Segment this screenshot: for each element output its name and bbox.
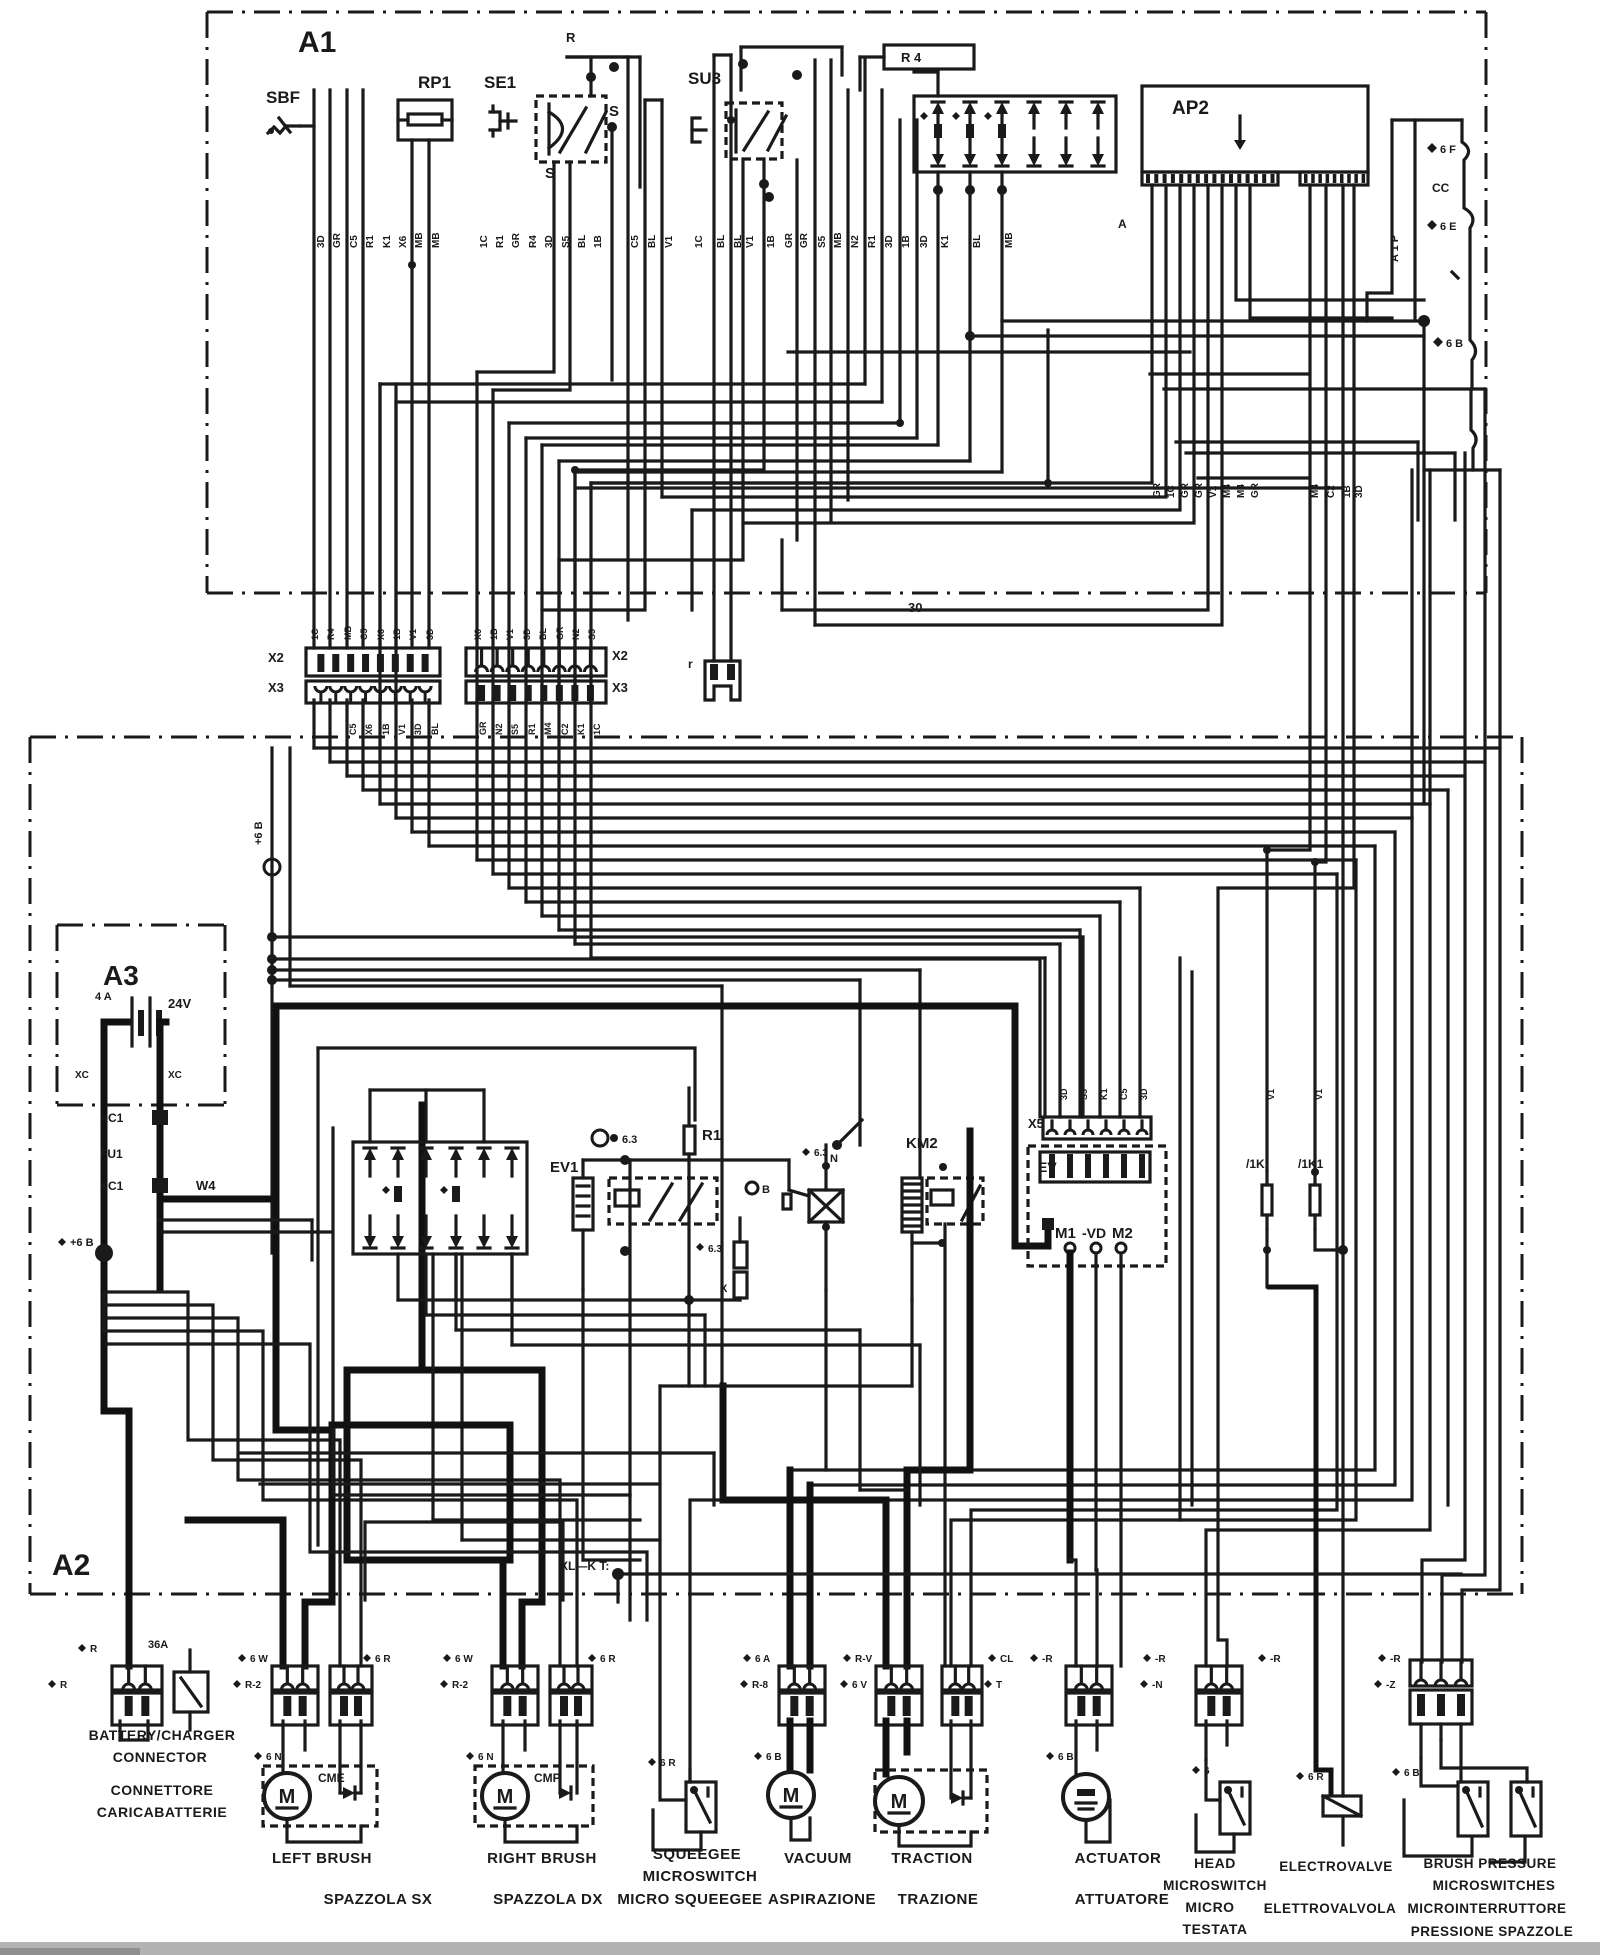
- svg-text:XC: XC: [168, 1070, 182, 1081]
- svg-text:1B: 1B: [593, 235, 604, 248]
- svg-text:N2: N2: [850, 235, 861, 248]
- svg-text:30: 30: [908, 600, 922, 615]
- svg-text:V1: V1: [745, 235, 756, 248]
- svg-text:GR: GR: [1152, 482, 1163, 498]
- svg-text:MB: MB: [833, 232, 844, 248]
- svg-text:ATTUATORE: ATTUATORE: [1075, 1891, 1170, 1908]
- svg-text:3D: 3D: [884, 235, 895, 248]
- svg-text:-R: -R: [1042, 1654, 1053, 1665]
- svg-text:MICRO SQUEEGEE: MICRO SQUEEGEE: [617, 1891, 762, 1908]
- svg-text:MICROSWITCH: MICROSWITCH: [643, 1868, 758, 1885]
- svg-text:ACTUATOR: ACTUATOR: [1075, 1850, 1162, 1867]
- svg-text:M1: M1: [1055, 1225, 1076, 1242]
- svg-text:HEAD: HEAD: [1194, 1855, 1236, 1871]
- svg-text:B: B: [762, 1184, 770, 1196]
- svg-text:R1: R1: [702, 1127, 721, 1144]
- svg-text:M4: M4: [1310, 484, 1321, 498]
- svg-text:R: R: [566, 30, 576, 45]
- svg-text:3D: 3D: [522, 628, 532, 640]
- svg-text:V1: V1: [1208, 485, 1219, 498]
- svg-text:GR: GR: [511, 232, 522, 248]
- svg-text:N: N: [830, 1153, 838, 1165]
- svg-text:R-2: R-2: [452, 1680, 469, 1691]
- svg-text:R1: R1: [495, 235, 506, 248]
- svg-text:EV1: EV1: [550, 1159, 578, 1176]
- svg-text:+6 B: +6 B: [253, 821, 265, 845]
- svg-text:GR: GR: [1180, 482, 1191, 498]
- svg-text:W4: W4: [196, 1178, 216, 1193]
- svg-text:M: M: [279, 1786, 296, 1808]
- svg-text:1C: 1C: [694, 235, 705, 248]
- svg-text:SPAZZOLA SX: SPAZZOLA SX: [324, 1891, 433, 1908]
- svg-text:1B: 1B: [1342, 485, 1353, 498]
- svg-text:1B: 1B: [392, 628, 402, 640]
- svg-text:MB: MB: [343, 626, 353, 640]
- svg-text:MB: MB: [1004, 232, 1015, 248]
- svg-text:3D: 3D: [413, 723, 423, 735]
- svg-text:BL: BL: [647, 235, 658, 248]
- svg-text:SPAZZOLA DX: SPAZZOLA DX: [493, 1891, 603, 1908]
- svg-text:V1: V1: [408, 629, 418, 640]
- svg-text:GR: GR: [784, 232, 795, 248]
- svg-text:A: A: [1118, 217, 1127, 231]
- svg-text:3D: 3D: [919, 235, 930, 248]
- svg-text:V1: V1: [505, 629, 515, 640]
- svg-text:R-8: R-8: [752, 1680, 769, 1691]
- svg-text:V1: V1: [1266, 1089, 1276, 1100]
- svg-text:S5: S5: [510, 724, 520, 735]
- svg-text:C5: C5: [1119, 1088, 1129, 1100]
- svg-text:M: M: [891, 1791, 908, 1813]
- svg-text:S5: S5: [1079, 1089, 1089, 1100]
- svg-text:R: R: [90, 1644, 98, 1655]
- svg-text:M2: M2: [1112, 1225, 1133, 1242]
- svg-text:N2: N2: [571, 628, 581, 640]
- svg-text:A 1 P: A 1 P: [1389, 235, 1401, 262]
- svg-text:C5: C5: [630, 235, 641, 248]
- svg-text:GR: GR: [1250, 482, 1261, 498]
- svg-text:6.3: 6.3: [708, 1244, 722, 1255]
- svg-text:3D: 3D: [1059, 1088, 1069, 1100]
- svg-text:6: 6: [1204, 1766, 1210, 1777]
- svg-text:X6: X6: [398, 235, 409, 248]
- svg-text:BL: BL: [577, 235, 588, 248]
- svg-text:CC: CC: [1432, 181, 1450, 195]
- svg-text:S5: S5: [587, 629, 597, 640]
- svg-text:C5: C5: [359, 628, 369, 640]
- svg-text:R: R: [60, 1680, 68, 1691]
- svg-text:BL: BL: [972, 235, 983, 248]
- svg-text:A2: A2: [52, 1549, 90, 1582]
- svg-text:6 B: 6 B: [1058, 1752, 1074, 1763]
- svg-text:-R: -R: [1270, 1654, 1281, 1665]
- svg-text:6 V: 6 V: [852, 1680, 867, 1691]
- svg-text:6 F: 6 F: [1440, 144, 1456, 156]
- svg-text:6 A: 6 A: [755, 1654, 770, 1665]
- svg-text:6 R: 6 R: [1308, 1772, 1324, 1783]
- svg-text:SU3: SU3: [688, 69, 721, 88]
- svg-text:M: M: [783, 1785, 800, 1807]
- svg-text:-N: -N: [1152, 1680, 1163, 1691]
- svg-text:-R: -R: [1155, 1654, 1166, 1665]
- svg-text:C2: C2: [1326, 485, 1337, 498]
- svg-text:AP2: AP2: [1172, 98, 1209, 119]
- svg-text:6 R: 6 R: [375, 1654, 391, 1665]
- svg-text:XC: XC: [75, 1070, 89, 1081]
- svg-text:N2: N2: [494, 723, 504, 735]
- svg-text:FU1: FU1: [100, 1147, 123, 1161]
- svg-text:-VD: -VD: [1082, 1225, 1106, 1241]
- svg-text:+6 B: +6 B: [70, 1237, 94, 1249]
- svg-text:K1: K1: [940, 235, 951, 248]
- svg-text:C5: C5: [349, 235, 360, 248]
- svg-text:6 B: 6 B: [766, 1752, 782, 1763]
- svg-text:CARICABATTERIE: CARICABATTERIE: [97, 1804, 227, 1820]
- svg-text:/1K: /1K: [1246, 1157, 1265, 1171]
- svg-text:X2: X2: [268, 650, 284, 665]
- svg-text:ELETTROVALVOLA: ELETTROVALVOLA: [1264, 1901, 1397, 1916]
- svg-text:ELECTROVALVE: ELECTROVALVE: [1279, 1859, 1393, 1874]
- svg-text:T: T: [996, 1680, 1002, 1691]
- svg-text:6.3: 6.3: [622, 1134, 637, 1146]
- svg-text:X3: X3: [268, 680, 284, 695]
- svg-text:VACUUM: VACUUM: [784, 1850, 852, 1867]
- svg-text:A1: A1: [298, 26, 336, 59]
- svg-text:/1K1: /1K1: [1298, 1157, 1324, 1171]
- svg-text:6 R: 6 R: [600, 1654, 616, 1665]
- svg-text:3D: 3D: [425, 628, 435, 640]
- svg-text:S5: S5: [817, 235, 828, 248]
- svg-text:V1: V1: [664, 235, 675, 248]
- svg-text:LEFT BRUSH: LEFT BRUSH: [272, 1850, 372, 1867]
- svg-text:R1: R1: [867, 235, 878, 248]
- svg-text:MICROSWITCH: MICROSWITCH: [1163, 1878, 1267, 1893]
- svg-text:1C: 1C: [310, 628, 320, 640]
- svg-text:GR: GR: [799, 232, 810, 248]
- svg-text:R 4: R 4: [901, 50, 922, 65]
- svg-text:R-2: R-2: [245, 1680, 262, 1691]
- svg-text:-R: -R: [1390, 1654, 1401, 1665]
- svg-text:R1: R1: [365, 235, 376, 248]
- svg-text:S: S: [609, 103, 619, 120]
- svg-text:GR: GR: [478, 721, 488, 735]
- svg-text:CONNETTORE: CONNETTORE: [111, 1782, 214, 1798]
- svg-text:SE1: SE1: [484, 73, 516, 92]
- svg-text:S5: S5: [561, 235, 572, 248]
- svg-text:BL: BL: [716, 235, 727, 248]
- svg-text:6 N: 6 N: [266, 1752, 282, 1763]
- svg-text:A3: A3: [103, 960, 139, 991]
- svg-text:MB: MB: [431, 232, 442, 248]
- svg-text:X3: X3: [612, 680, 628, 695]
- svg-text:6 N: 6 N: [478, 1752, 494, 1763]
- svg-text:MICRO: MICRO: [1185, 1899, 1234, 1915]
- svg-text:1B: 1B: [381, 723, 391, 735]
- svg-text:1C: 1C: [592, 723, 602, 735]
- svg-text:R4: R4: [528, 235, 539, 248]
- svg-text:X2: X2: [612, 648, 628, 663]
- svg-text:3D: 3D: [1139, 1088, 1149, 1100]
- svg-text:SQUEEGEE: SQUEEGEE: [653, 1846, 741, 1863]
- svg-text:CL: CL: [1000, 1654, 1013, 1665]
- svg-text:MICROSWITCHES: MICROSWITCHES: [1433, 1878, 1556, 1893]
- svg-text:CMP: CMP: [534, 1771, 561, 1785]
- svg-text:6.3: 6.3: [814, 1148, 828, 1159]
- svg-text:3D: 3D: [316, 235, 327, 248]
- svg-text:TRACTION: TRACTION: [891, 1850, 973, 1867]
- svg-text:1B: 1B: [766, 235, 777, 248]
- svg-text:M: M: [497, 1786, 514, 1808]
- svg-text:C2: C2: [560, 723, 570, 735]
- svg-text:6 W: 6 W: [455, 1654, 473, 1665]
- svg-text:TESTATA: TESTATA: [1183, 1921, 1248, 1937]
- svg-text:1B: 1B: [901, 235, 912, 248]
- svg-text:C5: C5: [348, 723, 358, 735]
- svg-text:4 A: 4 A: [95, 991, 112, 1003]
- svg-text:GR: GR: [555, 626, 565, 640]
- svg-text:1B: 1B: [489, 628, 499, 640]
- svg-text:R1: R1: [527, 723, 537, 735]
- svg-text:M4: M4: [543, 722, 553, 735]
- svg-text:3D: 3D: [544, 235, 555, 248]
- svg-text:6 W: 6 W: [250, 1654, 268, 1665]
- svg-text:BATTERY/CHARGER: BATTERY/CHARGER: [89, 1727, 236, 1743]
- svg-text:KM2: KM2: [906, 1135, 938, 1152]
- svg-text:R-V: R-V: [855, 1654, 873, 1665]
- svg-text:XC1: XC1: [100, 1179, 124, 1193]
- svg-text:R4: R4: [326, 628, 336, 640]
- svg-text:GR: GR: [332, 232, 343, 248]
- svg-text:3D: 3D: [1354, 485, 1365, 498]
- svg-text:XC1: XC1: [100, 1111, 124, 1125]
- svg-text:BL: BL: [538, 628, 548, 640]
- svg-text:RP1: RP1: [418, 73, 451, 92]
- svg-text:6 B: 6 B: [1446, 338, 1463, 350]
- svg-text:GR: GR: [1194, 482, 1205, 498]
- svg-text:K1: K1: [1099, 1088, 1109, 1100]
- svg-text:ASPIRAZIONE: ASPIRAZIONE: [768, 1891, 876, 1908]
- svg-text:M4: M4: [1222, 484, 1233, 498]
- svg-text:X6: X6: [364, 724, 374, 735]
- svg-text:BL: BL: [733, 235, 744, 248]
- svg-text:X6: X6: [473, 629, 483, 640]
- svg-text:6 B: 6 B: [1404, 1768, 1420, 1779]
- svg-text:PRESSIONE SPAZZOLE: PRESSIONE SPAZZOLE: [1411, 1924, 1574, 1939]
- svg-text:1C: 1C: [479, 235, 490, 248]
- svg-text:24V: 24V: [168, 996, 191, 1011]
- svg-text:6 R: 6 R: [660, 1758, 676, 1769]
- svg-text:X6: X6: [376, 629, 386, 640]
- svg-text:K1: K1: [382, 235, 393, 248]
- svg-text:RIGHT BRUSH: RIGHT BRUSH: [487, 1850, 597, 1867]
- svg-text:V1: V1: [397, 724, 407, 735]
- svg-text:BL: BL: [430, 723, 440, 735]
- svg-text:MB: MB: [414, 232, 425, 248]
- svg-text:-Z: -Z: [1386, 1680, 1395, 1691]
- svg-text:SBF: SBF: [266, 88, 300, 107]
- svg-text:K1: K1: [576, 723, 586, 735]
- svg-text:CONNECTOR: CONNECTOR: [113, 1749, 207, 1765]
- svg-text:r: r: [688, 657, 693, 671]
- svg-text:MICROINTERRUTTORE: MICROINTERRUTTORE: [1408, 1901, 1567, 1916]
- svg-text:1C: 1C: [1166, 485, 1177, 498]
- svg-text:V1: V1: [1314, 1089, 1324, 1100]
- svg-text:TRAZIONE: TRAZIONE: [898, 1891, 979, 1908]
- svg-text:X: X: [720, 1283, 728, 1295]
- svg-text:BRUSH PRESSURE: BRUSH PRESSURE: [1423, 1856, 1556, 1871]
- svg-text:36A: 36A: [148, 1639, 168, 1651]
- svg-text:M4: M4: [1236, 484, 1247, 498]
- svg-text:6 E: 6 E: [1440, 221, 1457, 233]
